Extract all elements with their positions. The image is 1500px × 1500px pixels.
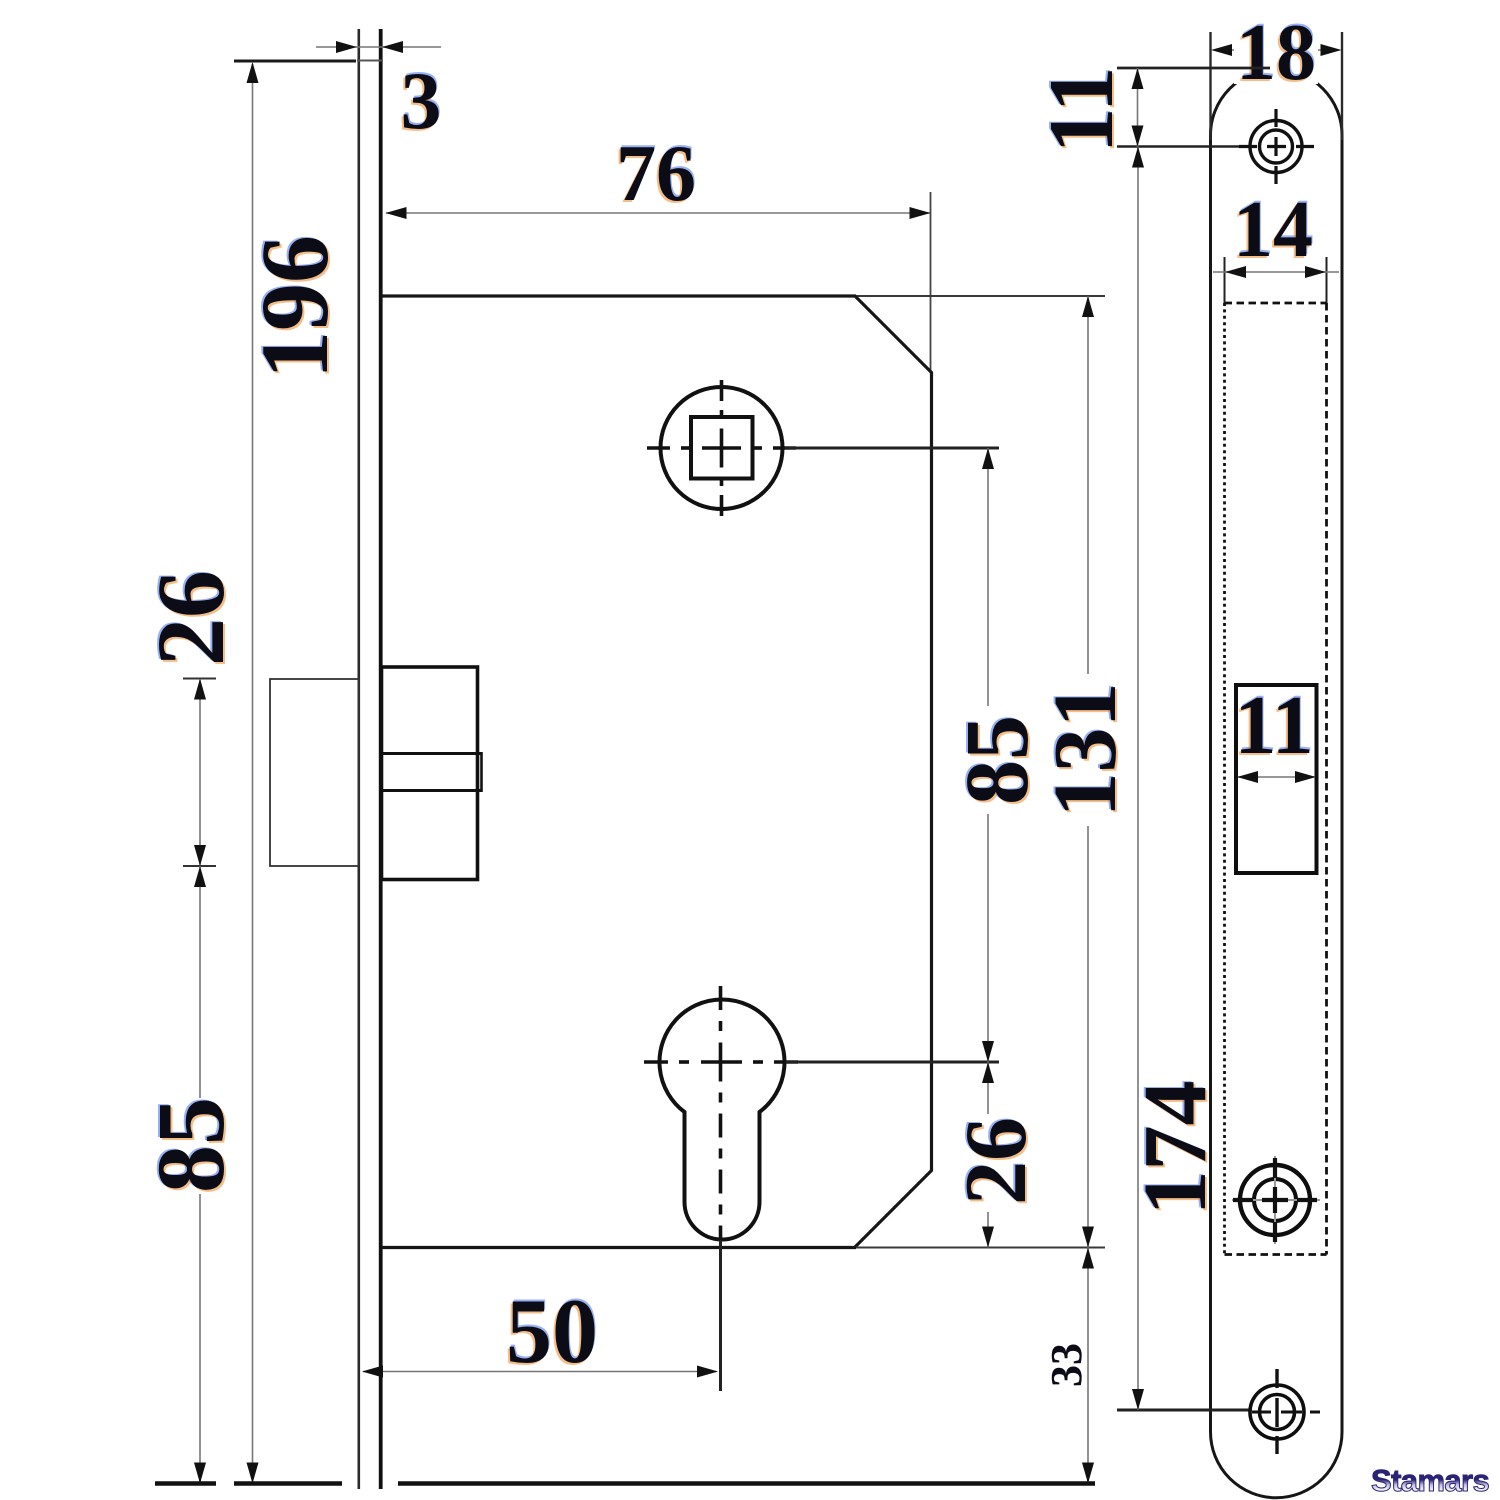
dim 14 extension right bbox=[1326, 257, 1328, 303]
svg-text:26: 26 bbox=[948, 1117, 1045, 1205]
dim 11 top extension upper bbox=[1117, 67, 1270, 70]
lock case right edge bbox=[930, 372, 933, 1171]
spindle centerline vertical dash-dot bbox=[720, 380, 724, 516]
dim 85 right text bbox=[946, 714, 1049, 807]
strike plate latch opening bbox=[1236, 685, 1317, 873]
dim 85 right line bbox=[987, 448, 989, 1062]
bottom baseline tick mid bbox=[234, 1481, 342, 1486]
dim 85 left text white bg bbox=[158, 1098, 224, 1194]
strike plate left extension above bbox=[1209, 32, 1211, 140]
top screw cross vertical bbox=[1274, 109, 1277, 184]
dim 174 top arrow bbox=[1132, 147, 1144, 168]
svg-text:196: 196 bbox=[241, 235, 348, 379]
svg-text:76: 76 bbox=[616, 130, 696, 218]
svg-text:3: 3 bbox=[401, 55, 442, 146]
dim 85 left line bbox=[199, 866, 201, 1483]
strike plate dashed cutout bottom bbox=[1225, 1253, 1327, 1256]
dim 3 right arrow bbox=[382, 41, 403, 53]
dim 26 left mid tick bbox=[183, 865, 216, 867]
faceplate front strip left line bbox=[357, 29, 360, 1489]
dim 50 right arrow bbox=[697, 1366, 718, 1378]
bottom screw cross horizontal right bbox=[1252, 1411, 1320, 1414]
faceplate strip top cap bbox=[357, 60, 383, 62]
dim 11 top up arrow bbox=[1132, 68, 1144, 89]
latch opening width left arrow bbox=[1237, 771, 1258, 783]
dim 85 left text bbox=[135, 1096, 246, 1195]
lock case bottom line bbox=[382, 1246, 856, 1249]
lock case top chamfer bbox=[855, 296, 932, 373]
top screw cross horizontal bbox=[1239, 145, 1314, 148]
bottom screw inner circle bbox=[1260, 1395, 1295, 1430]
spindle square hole bbox=[691, 417, 753, 479]
latch opening 11 text bbox=[1232, 677, 1314, 774]
cylinder centerline vertical solid below bbox=[719, 1240, 722, 1391]
strike plate outline bbox=[1211, 69, 1343, 1497]
svg-text:131: 131 bbox=[1036, 683, 1135, 818]
middle screw outer circle bbox=[1240, 1165, 1310, 1235]
dim 76 right arrow bbox=[910, 207, 931, 219]
dim 131 bottom arrow bbox=[1082, 1227, 1094, 1248]
dim 33 bottom arrow bbox=[1082, 1463, 1094, 1484]
svg-text:50: 50 bbox=[506, 1280, 598, 1382]
strike plate right extension above bbox=[1341, 32, 1343, 140]
svg-text:85: 85 bbox=[137, 1097, 244, 1193]
dim 174 line bbox=[1137, 147, 1139, 1411]
dim 26 left top arrow bbox=[194, 679, 206, 700]
dim 196 text bbox=[239, 234, 350, 381]
bottom baseline tick left bbox=[155, 1481, 216, 1486]
dim 14 text bbox=[1231, 184, 1314, 276]
dim 11 top text bbox=[1028, 66, 1134, 156]
dim 26 right top arrow bbox=[982, 1062, 994, 1083]
dim 196 line bbox=[252, 64, 254, 1483]
dim 18 text bbox=[1234, 7, 1317, 99]
bottom screw cross vertical bbox=[1275, 1369, 1278, 1454]
dim 18 text white bg bbox=[1234, 16, 1318, 84]
dim 14 right arrow bbox=[1305, 266, 1326, 278]
spindle centerline solid to dim 85 bbox=[785, 447, 999, 450]
dim 85 right top arrow bbox=[982, 448, 994, 469]
middle screw cross vertical bbox=[1273, 1158, 1277, 1242]
dim 26 right text bbox=[946, 1116, 1047, 1207]
strike plate dashed cutout right bbox=[1325, 303, 1328, 1255]
bottom screw centerline bbox=[1117, 1409, 1250, 1412]
svg-text:11: 11 bbox=[1234, 679, 1313, 772]
euro cylinder profile bbox=[660, 1000, 785, 1240]
svg-text:11: 11 bbox=[1030, 67, 1132, 154]
lock case top line bbox=[382, 294, 856, 297]
bottom screw outer circle bbox=[1250, 1385, 1304, 1439]
dim 174 text bbox=[1124, 1080, 1227, 1218]
dim 50 text bbox=[504, 1278, 599, 1384]
dim 11 top line bbox=[1137, 68, 1139, 147]
dim 131 text white bg bbox=[1052, 674, 1120, 826]
dim 3 left arrow bbox=[336, 41, 357, 53]
latch bolt rear box bbox=[382, 667, 478, 880]
latch opening width line bbox=[1238, 776, 1315, 778]
dim 3 line bbox=[316, 46, 441, 48]
extension line to strip top-left bbox=[234, 60, 356, 63]
latch bolt band top line bbox=[382, 752, 482, 755]
dim 14 extension left bbox=[1224, 257, 1226, 303]
dim 33 line bbox=[1087, 1248, 1089, 1484]
dim 26 left top tick bbox=[183, 678, 216, 680]
dim 76 extension line right bbox=[930, 192, 932, 373]
dim 18 right arrow bbox=[1321, 44, 1342, 56]
dim 26 left bottom arrow bbox=[194, 845, 206, 866]
dim 131 top arrow bbox=[1082, 296, 1094, 317]
dim 85 right bottom arrow bbox=[982, 1041, 994, 1062]
dim 50 line bbox=[363, 1371, 716, 1373]
dim 131 line bbox=[1087, 296, 1089, 1248]
middle screw inner circle bbox=[1254, 1179, 1296, 1221]
strike plate dashed cutout left bbox=[1223, 303, 1226, 1255]
spindle centerline horizontal dash-dot bbox=[647, 446, 796, 450]
svg-text:Stamars: Stamars bbox=[1371, 1463, 1489, 1498]
dim 76 text bbox=[614, 128, 697, 220]
dim 196 bottom arrow bbox=[247, 1463, 259, 1484]
dim 85 right text white bg bbox=[963, 706, 1031, 814]
dim 33 text bbox=[1042, 1343, 1091, 1387]
dim 131 text bbox=[1034, 682, 1137, 820]
dim 14 text white bg bbox=[1230, 196, 1316, 258]
spindle hub circle bbox=[661, 387, 783, 509]
lock case bottom chamfer bbox=[855, 1170, 932, 1247]
svg-text:85: 85 bbox=[948, 715, 1047, 805]
dim 14 line bbox=[1213, 271, 1339, 273]
dim 33 top arrow bbox=[1082, 1248, 1094, 1269]
lock case bottom extension right bbox=[856, 1247, 1105, 1249]
dim 26 right bottom arrow bbox=[982, 1227, 994, 1248]
dim 26 right text white bg bbox=[963, 1114, 1029, 1212]
svg-text:174: 174 bbox=[1126, 1081, 1225, 1216]
lock case top line extension right bbox=[856, 295, 1105, 297]
cylinder centerline horizontal dash-dot bbox=[644, 1060, 798, 1064]
latch opening width right arrow bbox=[1295, 771, 1316, 783]
latch bolt band right edge bbox=[480, 752, 483, 792]
svg-text:26: 26 bbox=[137, 570, 244, 666]
dim 85 left top arrow bbox=[194, 866, 206, 887]
dim 85 left bottom arrow bbox=[194, 1463, 206, 1484]
strike plate dashed cutout top bbox=[1225, 302, 1327, 305]
dim 18 line bbox=[1226, 49, 1327, 51]
dim 3 text bbox=[399, 53, 443, 148]
top screw outer circle bbox=[1250, 121, 1302, 173]
dim 18 left arrow bbox=[1211, 44, 1232, 56]
top screw inner circle bbox=[1260, 130, 1293, 163]
middle screw crosshair thin v bbox=[1274, 1156, 1276, 1244]
latch bolt band bottom line bbox=[382, 789, 482, 792]
svg-text:14: 14 bbox=[1233, 186, 1313, 274]
dim 50 left arrow bbox=[362, 1366, 383, 1378]
dim 26 left line bbox=[199, 680, 201, 865]
bottom baseline main bbox=[398, 1481, 1095, 1486]
dim 76 left arrow bbox=[386, 207, 407, 219]
dim 14 left arrow bbox=[1225, 266, 1246, 278]
faceplate front strip right line bbox=[379, 29, 383, 1489]
svg-text:18: 18 bbox=[1236, 9, 1316, 97]
dim 11 top down arrow bbox=[1132, 126, 1144, 147]
dim 26 right line bbox=[987, 1062, 989, 1248]
dim 11 top extension lower (screw centerline) bbox=[1117, 145, 1240, 147]
cylinder centerline horizontal solid to dim bbox=[786, 1061, 999, 1064]
cylinder centerline vertical dash-dot bbox=[719, 986, 723, 1240]
dim 76 line bbox=[386, 212, 930, 214]
dim 174 bottom arrow bbox=[1132, 1389, 1144, 1410]
dim 174 text white bg bbox=[1142, 1082, 1208, 1214]
dim 26 left text bbox=[135, 569, 246, 668]
middle screw crosshair thin h bbox=[1232, 1199, 1320, 1201]
middle screw cross horizontal bbox=[1233, 1198, 1317, 1202]
latch bolt front box bbox=[270, 679, 359, 866]
dim 196 top arrow bbox=[247, 62, 259, 83]
svg-text:33: 33 bbox=[1042, 1343, 1091, 1387]
